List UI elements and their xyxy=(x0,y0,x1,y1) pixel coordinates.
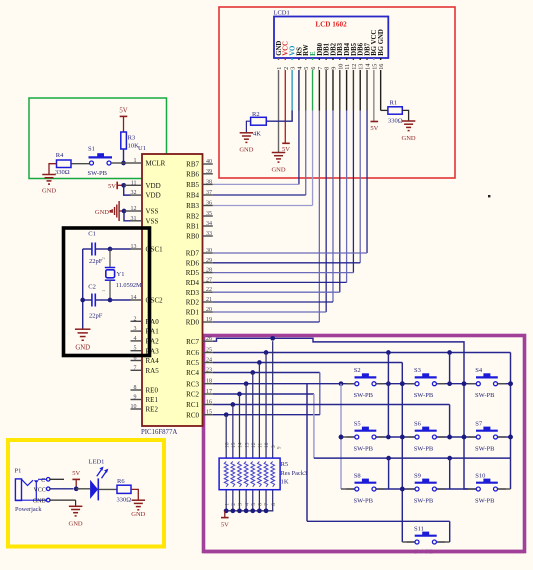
svg-text:SW-PB: SW-PB xyxy=(475,392,495,399)
svg-text:26: 26 xyxy=(206,336,212,342)
wire LCD pin12 to U1 pin 28 xyxy=(213,111,354,273)
svg-text:S2: S2 xyxy=(354,367,361,374)
svg-text:RB3: RB3 xyxy=(186,202,199,210)
wire LCD pin6 to U1 pin 36 xyxy=(213,111,313,206)
svg-text:5: 5 xyxy=(134,346,137,352)
wire 5V node to LED xyxy=(76,488,90,490)
svg-text:RC2: RC2 xyxy=(186,391,199,399)
svg-text:R6: R6 xyxy=(117,478,125,485)
wire net RC3 row 18 and button row A xyxy=(213,381,513,542)
purple box around keypad section xyxy=(204,336,525,552)
wire VO to R2 xyxy=(266,111,292,122)
node at OSC1 junction xyxy=(108,247,113,252)
wire R4 to S1 xyxy=(71,163,89,165)
svg-text:LCD1: LCD1 xyxy=(274,10,290,17)
switch S11 xyxy=(407,525,445,555)
ground for P1 xyxy=(69,506,83,527)
wire R2 to ground xyxy=(246,121,250,133)
svg-text:27: 27 xyxy=(206,277,212,283)
svg-text:2: 2 xyxy=(231,503,237,506)
power 5V for LCD pin2 VCC xyxy=(282,143,290,153)
svg-text:U1: U1 xyxy=(138,145,146,152)
svg-text:S11: S11 xyxy=(414,525,424,532)
node at MCLR junction xyxy=(121,161,126,166)
wire C1 left to ground rail xyxy=(83,248,92,250)
svg-text:RC0: RC0 xyxy=(186,411,199,419)
svg-text:RC7: RC7 xyxy=(186,338,199,346)
svg-text:10: 10 xyxy=(131,404,137,410)
svg-text:330Ω: 330Ω xyxy=(117,496,132,503)
svg-text:10K: 10K xyxy=(128,143,140,150)
svg-text:11: 11 xyxy=(131,180,137,186)
svg-text:GND: GND xyxy=(69,521,83,528)
wire net RC0 row 15 xyxy=(213,412,320,417)
resistor R6 xyxy=(117,478,132,503)
wire LCD pin16 to R1 xyxy=(381,109,388,111)
switch S3 xyxy=(407,367,445,399)
svg-text:20: 20 xyxy=(206,307,212,313)
svg-text:GND: GND xyxy=(131,511,145,518)
svg-text:RA4: RA4 xyxy=(146,357,160,365)
LCD1 pin number labels xyxy=(275,60,385,70)
svg-text:RD0: RD0 xyxy=(186,319,200,327)
svg-text:C2: C2 xyxy=(88,283,96,290)
svg-text:2: 2 xyxy=(101,257,106,259)
LCD1 pin name labels xyxy=(276,29,385,56)
wire VSS node to pin 12 xyxy=(124,210,131,212)
svg-text:5V: 5V xyxy=(282,146,290,153)
capacitor C1 xyxy=(88,231,102,266)
svg-text:34: 34 xyxy=(206,221,212,227)
resistor R4 xyxy=(55,152,71,176)
svg-text:RE2: RE2 xyxy=(146,406,159,414)
switch S5 xyxy=(346,420,384,452)
svg-text:330Ω: 330Ω xyxy=(388,118,403,125)
svg-text:1: 1 xyxy=(224,503,230,506)
svg-text:RC4: RC4 xyxy=(186,369,199,377)
svg-text:SW-PB: SW-PB xyxy=(88,170,108,177)
svg-text:S10: S10 xyxy=(475,472,485,479)
svg-text:1: 1 xyxy=(134,158,137,164)
wire R6 to ground xyxy=(131,489,138,500)
svg-text:SW-PB: SW-PB xyxy=(475,445,495,452)
switch S2 xyxy=(346,367,384,399)
svg-text:GND: GND xyxy=(33,499,47,505)
resistor R3 xyxy=(121,132,139,150)
wire VDD node to pin 32 xyxy=(124,185,131,195)
U1 designator label xyxy=(138,145,146,152)
wire LCD pin14 to U1 pin 30 xyxy=(213,111,367,254)
svg-text:S8: S8 xyxy=(354,472,361,479)
svg-text:S4: S4 xyxy=(475,367,483,374)
svg-text:5V: 5V xyxy=(72,470,80,477)
svg-text:5V: 5V xyxy=(108,183,116,190)
svg-text:32: 32 xyxy=(131,190,137,196)
svg-text:4: 4 xyxy=(134,336,137,342)
svg-text:RD3: RD3 xyxy=(186,289,200,297)
svg-text:37: 37 xyxy=(206,190,212,196)
svg-text:39: 39 xyxy=(206,169,212,175)
wire P1 NC pin xyxy=(50,478,64,480)
svg-text:VCC: VCC xyxy=(33,487,45,493)
svg-text:38: 38 xyxy=(206,179,212,185)
svg-text:29: 29 xyxy=(206,258,212,264)
wire ground rail vertical xyxy=(82,249,84,329)
svg-text:S6: S6 xyxy=(414,420,422,427)
green box around reset circuit xyxy=(29,98,167,179)
svg-text:GND: GND xyxy=(75,345,90,352)
svg-text:LED1: LED1 xyxy=(89,459,105,466)
svg-text:1: 1 xyxy=(101,290,106,292)
svg-text:19: 19 xyxy=(206,317,212,323)
switch S1 xyxy=(88,146,113,177)
wire OSC1 node to pin 13 xyxy=(110,248,131,250)
svg-text:11.0592M: 11.0592M xyxy=(116,282,142,289)
node at VSS junction xyxy=(122,209,127,214)
wire P1 GND pin to ground xyxy=(50,500,76,506)
svg-text:RA1: RA1 xyxy=(146,328,160,336)
svg-text:C1: C1 xyxy=(88,231,96,238)
svg-text:SW-PB: SW-PB xyxy=(475,497,495,504)
power 5V for reset xyxy=(119,108,127,133)
resistor R2 xyxy=(251,111,267,138)
svg-text:PIC16F877A: PIC16F877A xyxy=(141,429,177,436)
svg-text:33: 33 xyxy=(206,231,212,237)
svg-text:SW-PB: SW-PB xyxy=(414,392,434,399)
wire P1 VCC to 5V node xyxy=(50,488,74,490)
wire LCD pin11 to U1 pin 27 xyxy=(213,111,347,283)
svg-text:5V: 5V xyxy=(119,108,127,115)
svg-text:GND: GND xyxy=(42,188,56,195)
svg-text:RB2: RB2 xyxy=(186,213,199,221)
svg-text:40: 40 xyxy=(206,159,212,165)
ground for R4 xyxy=(42,175,56,195)
svg-text:VDD: VDD xyxy=(146,192,161,200)
svg-text:11: 11 xyxy=(258,442,264,448)
U1 part number label xyxy=(141,429,177,436)
wire LCD pin9 to U1 pin 21 xyxy=(213,111,333,303)
svg-text:SW-PB: SW-PB xyxy=(354,497,374,504)
wire S1 right to node xyxy=(111,162,123,164)
svg-text:RC5: RC5 xyxy=(186,359,199,367)
svg-text:5V: 5V xyxy=(370,125,378,132)
wire net RC1 row 16 xyxy=(213,402,452,439)
svg-text:21: 21 xyxy=(206,297,212,303)
svg-text:LCD 1602: LCD 1602 xyxy=(315,21,347,29)
node at VDD junction xyxy=(121,183,126,188)
svg-text:23: 23 xyxy=(206,368,212,374)
svg-text:RE0: RE0 xyxy=(146,387,159,395)
svg-text:10: 10 xyxy=(264,442,270,448)
svg-text:8: 8 xyxy=(271,503,277,506)
svg-text:31: 31 xyxy=(131,216,137,222)
svg-text:5V: 5V xyxy=(221,522,229,529)
svg-text:P1: P1 xyxy=(15,468,22,475)
svg-text:8: 8 xyxy=(134,385,137,391)
wire button row B xyxy=(339,435,513,440)
resistor R1 xyxy=(388,100,403,125)
connector P1 power jack xyxy=(15,468,51,513)
LCD1 pin stub wires xyxy=(279,58,381,153)
svg-text:RB5: RB5 xyxy=(186,181,199,189)
wire net RC4 row 23 xyxy=(213,370,320,415)
svg-text:R5: R5 xyxy=(281,461,289,468)
svg-text:SW-PB: SW-PB xyxy=(354,445,374,452)
svg-text:RD6: RD6 xyxy=(186,259,200,267)
svg-text:6: 6 xyxy=(258,503,264,506)
svg-text:RD2: RD2 xyxy=(186,299,200,307)
svg-text:22: 22 xyxy=(206,287,212,293)
svg-text:14: 14 xyxy=(131,295,137,301)
svg-text:GND: GND xyxy=(95,209,109,216)
svg-text:17: 17 xyxy=(206,389,212,395)
svg-text:12: 12 xyxy=(131,206,137,212)
switch S4 xyxy=(468,367,506,399)
black box around oscillator circuit xyxy=(64,228,150,356)
power 5V for VDD xyxy=(108,182,124,190)
node at C2 ground rail xyxy=(80,298,85,303)
svg-text:BG GND: BG GND xyxy=(378,29,385,56)
svg-text:RD7: RD7 xyxy=(186,250,200,258)
wire LCD pin5 to U1 pin 37 xyxy=(213,111,306,196)
svg-text:S5: S5 xyxy=(354,420,361,427)
diode LED1 xyxy=(89,459,109,501)
svg-text:RB1: RB1 xyxy=(186,223,199,231)
svg-text:1K: 1K xyxy=(281,479,289,486)
ground for R1 xyxy=(402,121,416,142)
svg-text:3: 3 xyxy=(238,503,244,506)
LCD1 title text xyxy=(315,21,347,29)
svg-text:RA0: RA0 xyxy=(146,318,160,326)
svg-text:RA2: RA2 xyxy=(146,338,160,346)
svg-text:4K: 4K xyxy=(253,131,261,138)
svg-text:25: 25 xyxy=(206,348,212,354)
svg-text:RB7: RB7 xyxy=(186,161,199,169)
power 5V for resistor pack xyxy=(221,511,229,529)
wire button row C xyxy=(376,487,477,492)
svg-text:22pF: 22pF xyxy=(89,312,103,319)
connector LCD1 body xyxy=(274,17,388,59)
node at OSC2 junction xyxy=(108,298,113,303)
wire net RC7 row 26 xyxy=(213,336,468,489)
yellow box around power circuit xyxy=(8,440,164,547)
red box around LCD section xyxy=(219,7,455,178)
wire C2 right to OSC2 xyxy=(95,299,110,301)
svg-text:SW-PB: SW-PB xyxy=(414,497,434,504)
svg-text:S3: S3 xyxy=(414,367,421,374)
svg-text:14: 14 xyxy=(238,442,244,448)
wire LCD pin4 to U1 pin 38 xyxy=(213,111,299,185)
svg-text:RC6: RC6 xyxy=(186,349,199,357)
wire net RC6 row 25 xyxy=(213,350,513,489)
svg-text:13: 13 xyxy=(131,244,137,250)
node at 5V LED junction xyxy=(74,486,79,491)
svg-text:18: 18 xyxy=(206,379,212,385)
svg-text:S7: S7 xyxy=(475,420,483,427)
wire node to MCLR pin xyxy=(124,162,131,164)
svg-text:RC3: RC3 xyxy=(186,380,199,388)
switch S10 xyxy=(468,472,506,504)
wire net RC5 row 24 xyxy=(213,360,415,542)
svg-text:VSS: VSS xyxy=(146,217,159,225)
svg-text:VSS: VSS xyxy=(146,208,159,216)
wire LCD pin7 to U1 pin 19 xyxy=(213,111,320,323)
svg-text:RB0: RB0 xyxy=(186,233,199,241)
wire R1 to ground xyxy=(402,110,408,121)
purple box bottom edge xyxy=(204,550,525,554)
svg-text:RD1: RD1 xyxy=(186,309,200,317)
switch S7 xyxy=(468,420,506,452)
svg-text:C: C xyxy=(41,478,45,484)
wire LCD pin8 to U1 pin 20 xyxy=(213,111,326,313)
ground for R2 xyxy=(239,133,253,154)
wire LCD pin10 to U1 pin 22 xyxy=(213,111,340,293)
svg-text:13: 13 xyxy=(244,442,250,448)
U1 left pin stubs and numbers xyxy=(131,158,143,410)
svg-text:S9: S9 xyxy=(414,472,421,479)
svg-text:S1: S1 xyxy=(88,146,95,153)
U1 right pin stubs and numbers xyxy=(203,159,213,416)
svg-text:R1: R1 xyxy=(390,100,398,107)
ground for LCD pin1 xyxy=(271,153,285,174)
svg-text:RB4: RB4 xyxy=(186,192,199,200)
wire VDD node to pin 11 xyxy=(124,184,131,186)
svg-text:R2: R2 xyxy=(252,111,260,118)
svg-text:7: 7 xyxy=(264,503,270,506)
svg-text:RE1: RE1 xyxy=(146,396,159,404)
svg-text:RD5: RD5 xyxy=(186,269,200,277)
wire S8 right riser xyxy=(388,458,390,489)
svg-text:R4: R4 xyxy=(56,152,64,159)
svg-text:28: 28 xyxy=(206,268,212,274)
svg-text:VDD: VDD xyxy=(146,182,161,190)
ground for VSS xyxy=(95,201,124,221)
svg-text:RB6: RB6 xyxy=(186,170,199,178)
svg-text:5: 5 xyxy=(251,503,257,506)
crystal Y1 xyxy=(101,249,142,300)
LCD1 designator label xyxy=(274,10,290,17)
ground for oscillator xyxy=(75,329,91,351)
wire net RC2 row 17 xyxy=(213,392,511,461)
wire S9 right riser xyxy=(449,458,451,489)
U1 left pin names xyxy=(146,160,166,414)
wire resistor pack common bus xyxy=(224,508,274,513)
switch S8 xyxy=(346,472,384,504)
wire LED to R6 xyxy=(98,488,117,490)
svg-text:15: 15 xyxy=(206,410,212,416)
wire R3 to MCLR node xyxy=(123,149,125,163)
svg-text:SW-PB: SW-PB xyxy=(414,445,434,452)
svg-text:GND: GND xyxy=(239,147,253,154)
svg-text:Powerjack: Powerjack xyxy=(15,506,42,513)
svg-text:7: 7 xyxy=(134,365,137,371)
power 5V for LCD pin15 xyxy=(370,122,378,132)
U1 right pin names xyxy=(186,161,200,420)
stray dot mark xyxy=(488,195,490,197)
svg-text:330Ω: 330Ω xyxy=(55,169,70,176)
svg-text:35: 35 xyxy=(206,211,212,217)
switch S6 xyxy=(407,420,445,452)
svg-text:16: 16 xyxy=(224,442,230,448)
svg-text:9: 9 xyxy=(271,445,277,448)
wire S3 right riser xyxy=(449,353,451,384)
svg-text:Y1: Y1 xyxy=(117,271,125,278)
svg-text:24: 24 xyxy=(206,358,212,364)
wire OSC2 node to pin 14 xyxy=(110,299,131,301)
svg-text:GND: GND xyxy=(271,167,285,174)
svg-text:12: 12 xyxy=(251,442,257,448)
wire R4 to ground xyxy=(49,164,57,175)
svg-text:GND: GND xyxy=(402,135,416,142)
capacitor C2 xyxy=(88,283,102,319)
wire S2 right riser xyxy=(387,353,389,438)
svg-text:MCLR: MCLR xyxy=(146,160,166,168)
svg-text:16: 16 xyxy=(378,64,385,70)
resistor pack R5 xyxy=(219,442,307,506)
wire resistor pack risers xyxy=(226,341,272,511)
wire C2 left to ground rail xyxy=(83,299,92,301)
svg-text:Res Pack3: Res Pack3 xyxy=(281,470,307,477)
switch S9 xyxy=(407,472,445,504)
svg-text:3: 3 xyxy=(134,326,137,332)
svg-text:30: 30 xyxy=(206,248,212,254)
svg-text:RD4: RD4 xyxy=(186,279,200,287)
ground for R6 xyxy=(131,500,145,518)
svg-text:15: 15 xyxy=(231,442,237,448)
svg-text:2: 2 xyxy=(134,316,137,322)
svg-text:4: 4 xyxy=(244,503,250,506)
svg-text:SW-PB: SW-PB xyxy=(354,392,374,399)
wire VSS node to pin 31 xyxy=(124,211,131,221)
svg-text:9: 9 xyxy=(134,395,137,401)
wire LCD pin13 to U1 pin 29 xyxy=(213,111,360,263)
svg-text:16: 16 xyxy=(206,400,212,406)
IC U1 PIC16F877A body xyxy=(142,154,203,426)
svg-text:RC1: RC1 xyxy=(186,401,199,409)
wire C1 right to OSC1 xyxy=(95,248,110,250)
svg-text:RA5: RA5 xyxy=(146,367,160,375)
svg-text:36: 36 xyxy=(206,201,212,207)
svg-text:R3: R3 xyxy=(128,134,136,141)
power 5V for board xyxy=(72,470,80,489)
